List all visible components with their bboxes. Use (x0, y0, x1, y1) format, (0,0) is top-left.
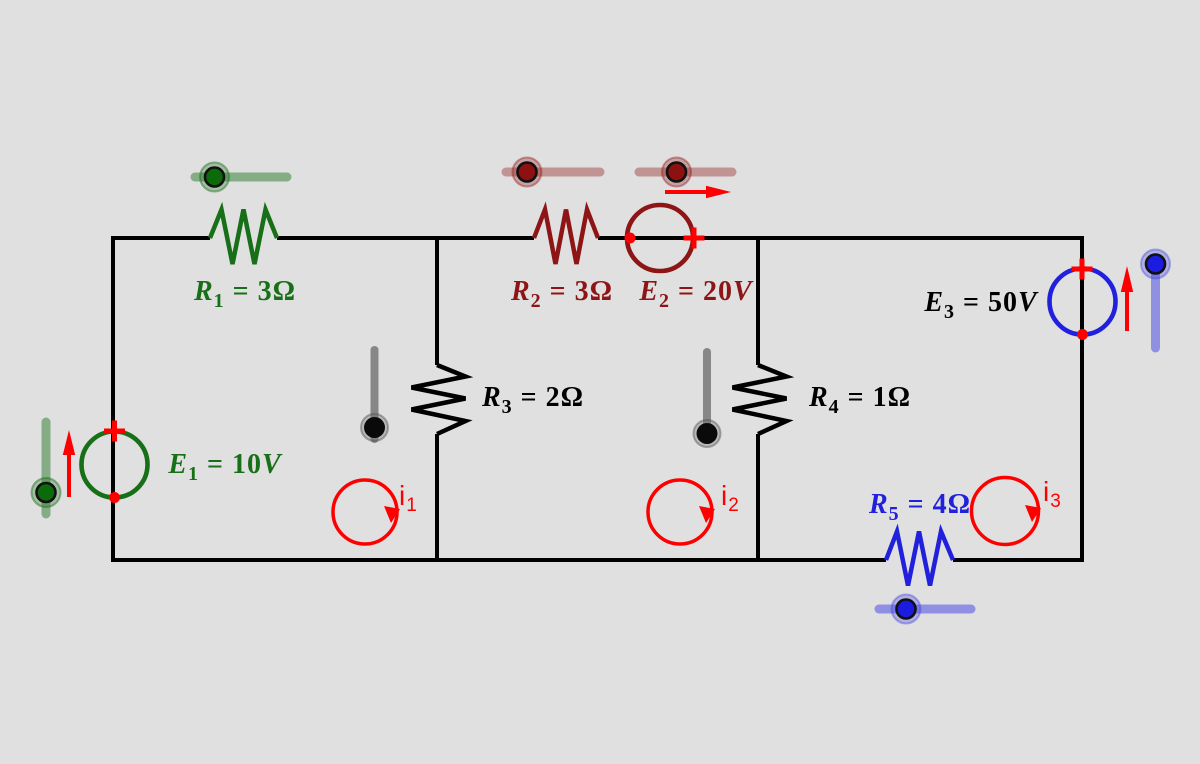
slider E3 handle (1146, 255, 1165, 274)
slider R5 track (879, 605, 971, 614)
plus sign at E1 top terminal (104, 421, 125, 442)
svg-text:E2 = 20V: E2 = 20V (638, 276, 754, 312)
svg-text:R5 = 4Ω: R5 = 4Ω (868, 489, 971, 525)
slider R4 handle halo (694, 420, 721, 447)
mesh current i2 circle (648, 480, 712, 544)
slider R5 handle (897, 600, 916, 619)
slider R4 track (703, 352, 711, 439)
slider E3 handle halo (1141, 250, 1170, 279)
mesh current i1 circle (333, 480, 397, 544)
voltage source E2 (627, 205, 693, 271)
resistor R3 (412, 365, 466, 434)
node dot at E2 left terminal (625, 233, 636, 244)
wire middle vertical 1 lower (435, 434, 439, 562)
slider R2 track (506, 168, 600, 177)
current direction arrow for E2 (665, 190, 708, 194)
current direction arrow for E3 (1125, 289, 1129, 331)
wire bottom (right segment) (953, 558, 1084, 562)
voltage source E3 (1050, 269, 1116, 335)
node dot at E3 bottom terminal (1077, 329, 1088, 340)
slider R3 handle (364, 417, 385, 438)
slider E2 handle halo (662, 158, 691, 187)
slider R5 handle halo (892, 595, 921, 624)
mesh current i2 arrowhead (699, 506, 715, 523)
plus sign at E3 top terminal (1072, 259, 1093, 280)
current direction arrow for E1 (67, 453, 71, 497)
slider E1 track (42, 422, 51, 514)
wire top (middle segment) (277, 236, 534, 240)
wire middle vertical 1 upper (435, 236, 439, 365)
slider R2 handle halo (513, 158, 542, 187)
plus sign at E2 right terminal (684, 228, 705, 249)
slider E1 handle (37, 483, 56, 502)
resistor R5 (886, 532, 953, 586)
voltage source E1 (82, 432, 148, 498)
svg-text:R3 = 2Ω: R3 = 2Ω (481, 382, 584, 418)
wire bottom (left segment) (111, 558, 886, 562)
wire top (left segment) (111, 236, 210, 240)
mesh current i1 arrowhead (384, 506, 400, 523)
slider R3 track (371, 350, 379, 439)
svg-text:E3 = 50V: E3 = 50V (923, 287, 1039, 323)
slider R4 handle (697, 423, 718, 444)
slider R1 track (195, 173, 287, 182)
slider R2 handle (518, 163, 537, 182)
slider R3 handle halo (361, 414, 388, 441)
resistor R4 (733, 365, 787, 434)
slider E2 handle (667, 163, 686, 182)
svg-text:R1 = 3Ω: R1 = 3Ω (193, 276, 296, 312)
wire middle vertical 2 lower (756, 434, 760, 562)
mesh current i3 circle (972, 478, 1039, 545)
slider E3 track (1151, 261, 1160, 348)
node dot at E1 bottom terminal (109, 492, 120, 503)
svg-text:E1 = 10V: E1 = 10V (167, 449, 283, 485)
slider E2 track (639, 168, 732, 177)
resistor R1 (210, 210, 277, 265)
slider R1 handle (205, 168, 224, 187)
svg-text:R4 = 1Ω: R4 = 1Ω (808, 382, 911, 418)
wire right vertical (passes under E3) (1080, 236, 1084, 562)
slider R1 handle halo (200, 163, 229, 192)
resistor R2 (534, 210, 598, 265)
slider E1 handle halo (32, 478, 61, 507)
wire left vertical (passes under E1) (111, 236, 115, 562)
wire middle vertical 2 upper (756, 236, 760, 365)
mesh current i3 arrowhead (1025, 505, 1041, 522)
svg-text:R2 = 3Ω: R2 = 3Ω (510, 276, 613, 312)
wire top (right segment, passes under E2) (598, 236, 1084, 240)
